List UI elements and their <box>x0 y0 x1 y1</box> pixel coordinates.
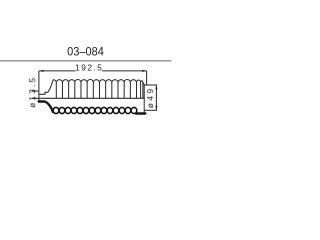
svg-text:192.5: 192.5 <box>75 63 103 73</box>
svg-text:03–084: 03–084 <box>67 45 104 59</box>
svg-text:ø49: ø49 <box>146 86 155 108</box>
svg-text:ø13.5: ø13.5 <box>28 76 37 108</box>
